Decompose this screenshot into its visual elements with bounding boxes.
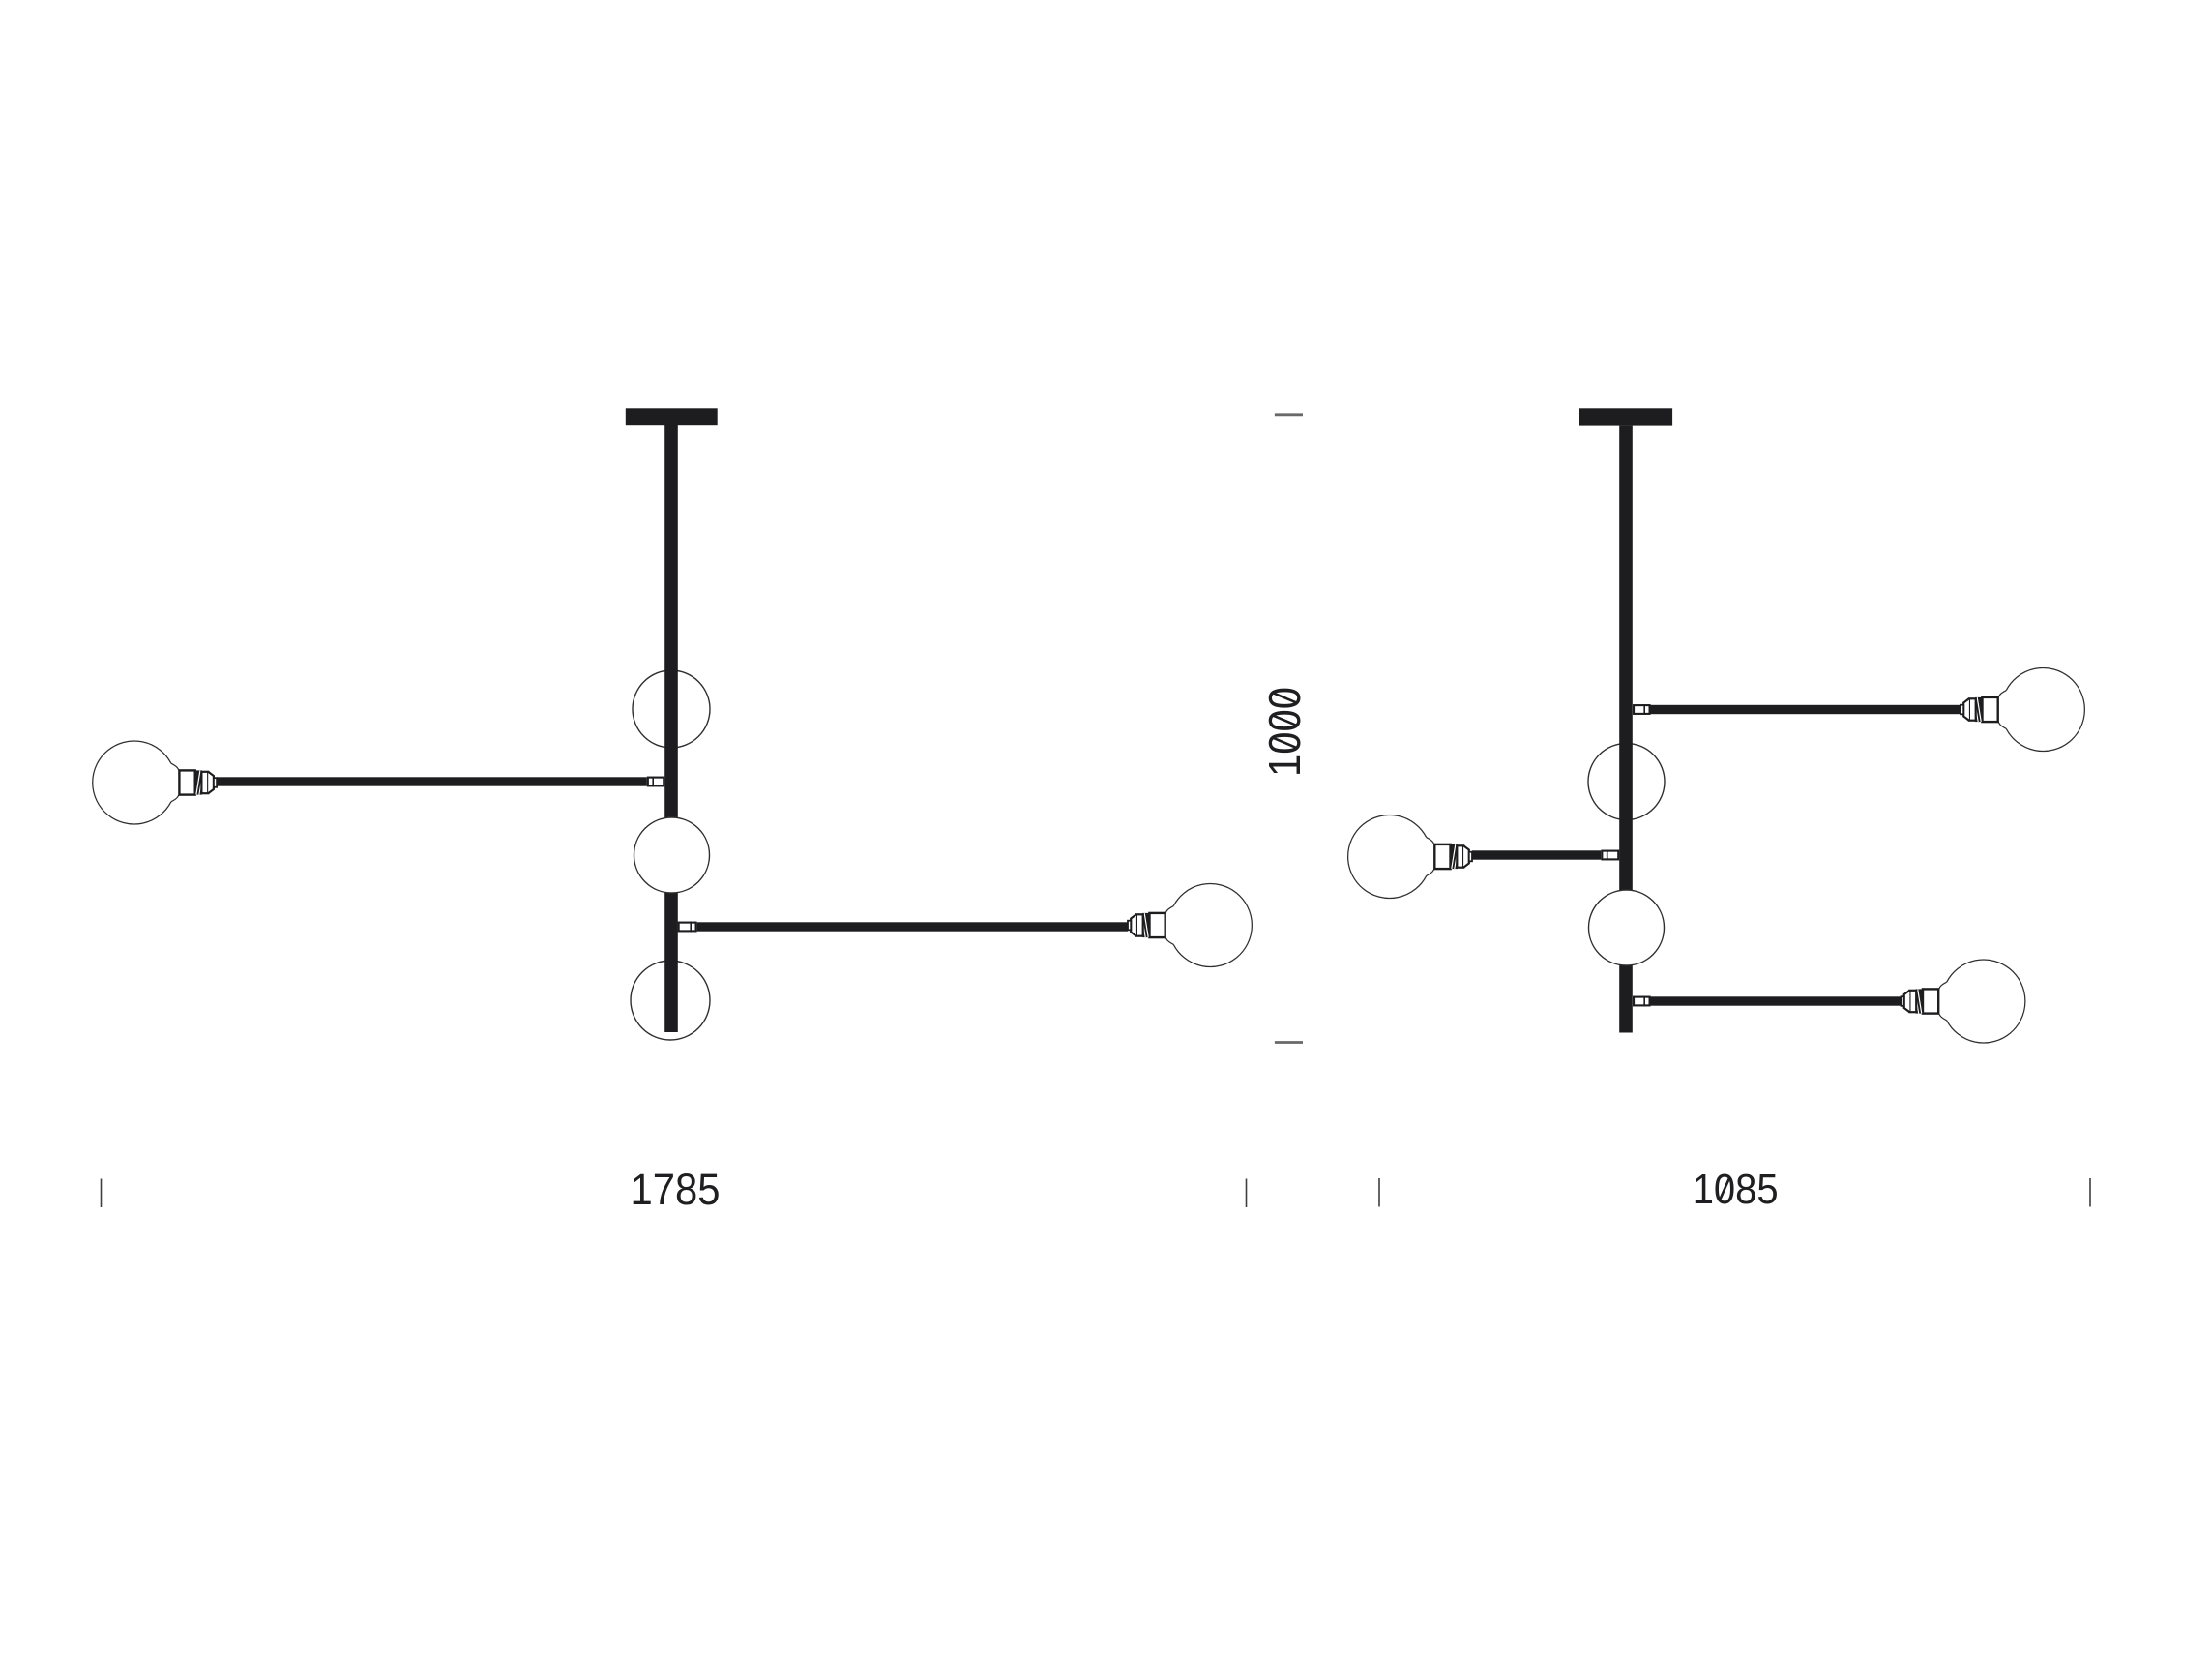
bulb B5 (lower right, mirrored) [1902, 960, 2025, 1043]
left dim right tick [1246, 1179, 1248, 1208]
right dim left tick [1378, 1178, 1380, 1207]
bulb B2 (right, mirrored) [1128, 884, 1252, 967]
left arm connector at rod [648, 777, 664, 787]
upper arm connector at rod [1634, 704, 1650, 715]
glass globe G3 (bottom, behind rod) [631, 961, 710, 1040]
glass globe G2 (middle, in front of rod) [634, 817, 710, 893]
left arm connector at rod [1602, 850, 1618, 861]
upper right arm [1651, 705, 1961, 714]
svg-text:1785: 1785 [631, 1165, 721, 1214]
ceiling canopy [1579, 408, 1672, 425]
left dim left tick [101, 1179, 103, 1208]
bulb B1 (left) [93, 741, 217, 824]
right dim right tick [2089, 1178, 2091, 1207]
svg-text:1000: 1000 [1259, 687, 1310, 777]
ceiling canopy [626, 408, 718, 425]
right dim label 1085 [1693, 1167, 1779, 1213]
bulb B3 (upper right, mirrored) [1961, 668, 2084, 752]
glass globe G1 (top, behind rod) [633, 670, 710, 748]
glass globe RG2 (middle, in front of rod) [1589, 890, 1665, 965]
vertical rod [664, 425, 678, 1032]
left arm [1472, 850, 1601, 859]
bulb B4 (left) [1348, 815, 1472, 899]
svg-text:1085: 1085 [1693, 1167, 1779, 1213]
vertical dim label 1000 [1259, 687, 1310, 777]
glass globe RG1 (upper, behind rod) [1588, 744, 1665, 820]
lower arm connector at rod [1634, 996, 1650, 1007]
vertical dim bottom tick [1275, 1041, 1303, 1044]
right arm [697, 922, 1128, 931]
right arm connector at rod [679, 922, 696, 933]
vertical rod [1619, 426, 1633, 1033]
left arm [217, 777, 647, 785]
vertical dim top tick [1275, 413, 1303, 416]
lower right arm [1651, 996, 1902, 1005]
